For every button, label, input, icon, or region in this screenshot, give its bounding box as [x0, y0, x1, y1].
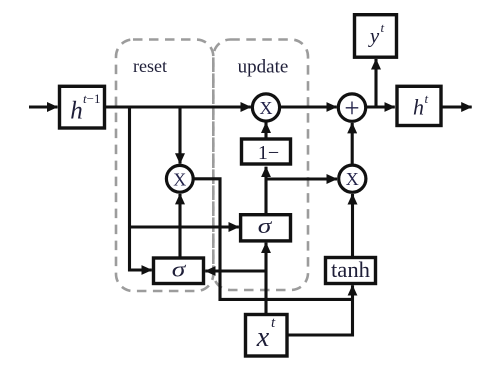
svg-text:t: t	[381, 20, 385, 35]
svg-text:reset: reset	[133, 56, 167, 76]
wire 1- box to X1	[264, 123, 267, 140]
dashed group box reset	[116, 40, 213, 292]
svg-text:h: h	[413, 95, 424, 120]
dashed group box update	[213, 40, 308, 291]
wire h(t-1) drop to reset sigma	[130, 106, 152, 270]
multiplier X2 reset	[166, 165, 193, 192]
wire x(t) riser to update sigma	[264, 243, 267, 315]
wire X2 output to tanh feed	[193, 179, 354, 300]
svg-text:X: X	[346, 169, 359, 189]
wire update sigma riser to 1- box	[264, 167, 267, 215]
wire branch update sigma to X3	[265, 177, 337, 180]
svg-text:t: t	[425, 91, 429, 106]
box x(t)	[246, 315, 288, 357]
svg-text:σ: σ	[172, 257, 187, 282]
wire X1 to adder	[280, 105, 337, 108]
wire X3 to adder	[351, 123, 354, 165]
wire riser to y(t)	[374, 59, 377, 108]
adder plus	[338, 93, 365, 123]
wire branch to update sigma	[128, 225, 239, 228]
svg-text:tanh: tanh	[331, 257, 370, 282]
svg-text:1−: 1−	[258, 142, 279, 164]
svg-text:σ: σ	[258, 213, 273, 238]
wire x(t) right to tanh	[287, 285, 353, 335]
svg-text:y: y	[368, 24, 380, 48]
wire h(t) output	[441, 105, 472, 108]
svg-text:X: X	[173, 169, 186, 189]
multiplier X1 on main line	[252, 94, 279, 121]
svg-text:h: h	[70, 98, 83, 125]
box h(t-1)	[60, 86, 105, 128]
wire h(t-1) drop into X2 top	[178, 106, 181, 164]
box y(t)	[355, 15, 397, 58]
box 1-minus	[242, 139, 291, 164]
svg-text:t−1: t−1	[83, 91, 100, 106]
wire adder to h(t)	[366, 105, 395, 108]
svg-text:x: x	[256, 322, 270, 353]
wire input arrow to h(t-1)	[29, 105, 58, 108]
svg-text:update: update	[238, 57, 289, 78]
wire tanh to X3	[351, 194, 354, 258]
box sigma reset	[154, 257, 204, 284]
box h(t)	[397, 86, 441, 125]
multiplier X3 update	[339, 165, 366, 192]
wire main line h(t-1) to X1	[105, 105, 251, 108]
wire branch to reset sigma right	[205, 269, 267, 272]
wire reset sigma to X2	[178, 194, 181, 258]
box tanh	[326, 257, 376, 284]
svg-text:+: +	[344, 93, 359, 123]
svg-text:X: X	[260, 98, 273, 118]
box sigma update	[241, 213, 291, 241]
